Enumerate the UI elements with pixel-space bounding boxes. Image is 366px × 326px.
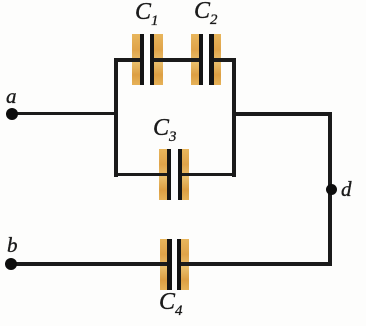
value label C2: [194, 0, 217, 25]
value label C3: [153, 115, 176, 142]
wire left vertical bus: [114, 58, 118, 177]
value label C1: [135, 0, 158, 26]
capacitor C4: [160, 239, 189, 291]
value label C4: [159, 289, 182, 316]
node d: [326, 184, 337, 195]
capacitor C1: [132, 34, 163, 86]
node a: [6, 108, 18, 120]
capacitor C2: [191, 34, 221, 86]
capacitor C3: [159, 149, 189, 201]
wire bottom branch of box: [114, 173, 236, 177]
node b: [5, 258, 17, 270]
wire right bus to corner (a-d wire): [232, 112, 333, 116]
wire right vertical bus: [232, 58, 236, 177]
node label b: [7, 233, 18, 258]
node label a: [6, 84, 17, 109]
wire right vertical through node d: [328, 112, 332, 266]
node label d: [341, 177, 352, 202]
wire top branch: [114, 58, 236, 62]
wire a to left bus: [10, 112, 118, 116]
wire b to right corner: [11, 262, 332, 266]
